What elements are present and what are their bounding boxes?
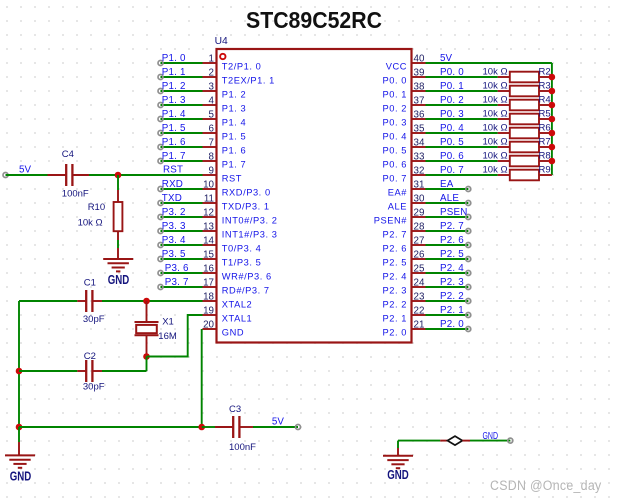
wire C2 row left bbox=[19, 370, 77, 372]
svg-text:T2/P1. 0: T2/P1. 0 bbox=[222, 61, 262, 71]
open end node P1. 1 bbox=[158, 75, 163, 80]
svg-text:T1/P3. 5: T1/P3. 5 bbox=[222, 257, 262, 267]
svg-text:P0. 0: P0. 0 bbox=[383, 75, 407, 85]
pin 12 stub bbox=[203, 216, 217, 218]
wire left vertical (C1/C2 bus) bbox=[18, 301, 20, 427]
svg-text:10k Ω: 10k Ω bbox=[78, 218, 103, 229]
svg-text:P0. 5: P0. 5 bbox=[383, 145, 407, 155]
svg-text:XTAL2: XTAL2 bbox=[222, 299, 252, 309]
pin 30 stub bbox=[412, 202, 426, 204]
open end node RXD bbox=[158, 187, 163, 192]
svg-text:EA: EA bbox=[440, 179, 454, 190]
node 5V (left) bbox=[3, 173, 8, 178]
capacitor C4 bbox=[48, 174, 67, 176]
open end node P2. 4 bbox=[466, 271, 471, 276]
wire 5V to C4 bbox=[6, 174, 48, 176]
svg-text:16M: 16M bbox=[158, 331, 177, 342]
svg-text:35: 35 bbox=[414, 123, 425, 134]
pin 15 stub bbox=[203, 258, 217, 260]
svg-text:100nF: 100nF bbox=[229, 442, 256, 453]
wire C2 to crystal bottom bbox=[102, 370, 147, 372]
svg-text:RST: RST bbox=[222, 173, 242, 183]
wire net P2. 4 bbox=[426, 272, 469, 274]
wire net P1. 6 bbox=[161, 146, 203, 148]
svg-text:P1. 2: P1. 2 bbox=[162, 81, 186, 92]
wire net P2. 2 bbox=[426, 300, 469, 302]
svg-text:21: 21 bbox=[414, 319, 425, 330]
svg-text:1: 1 bbox=[209, 53, 214, 64]
pin 31 stub bbox=[412, 188, 426, 190]
wire net P3. 7 bbox=[161, 286, 203, 288]
svg-text:13: 13 bbox=[203, 221, 214, 232]
wire 5V rail from pin 40 bbox=[426, 62, 552, 64]
junction pin20/bottom rail bbox=[198, 424, 205, 431]
svg-text:P1. 2: P1. 2 bbox=[222, 89, 246, 99]
svg-text:20: 20 bbox=[203, 319, 214, 330]
ground symbol (bottom right) bbox=[397, 441, 399, 448]
open end node P3. 4 bbox=[158, 243, 163, 248]
wire C3 to 5V bbox=[253, 426, 298, 428]
svg-text:P2. 6: P2. 6 bbox=[383, 243, 407, 253]
wire junction down to R10 bbox=[117, 175, 119, 190]
svg-text:27: 27 bbox=[414, 235, 425, 246]
wire net P1. 0 bbox=[161, 62, 203, 64]
pin 39 stub bbox=[412, 76, 426, 78]
pin 4 stub bbox=[203, 104, 217, 106]
svg-text:10k Ω: 10k Ω bbox=[483, 136, 508, 147]
svg-text:15: 15 bbox=[203, 249, 214, 260]
wire crystal to XTAL1 step bbox=[147, 315, 203, 357]
svg-text:6: 6 bbox=[209, 123, 215, 134]
open end node P2. 3 bbox=[466, 285, 471, 290]
svg-text:28: 28 bbox=[414, 221, 425, 232]
svg-text:P3. 4: P3. 4 bbox=[162, 235, 186, 246]
pin 6 stub bbox=[203, 132, 217, 134]
svg-text:INT1#/P3. 3: INT1#/P3. 3 bbox=[222, 229, 278, 239]
pin 1 stub bbox=[203, 62, 217, 64]
svg-text:P0. 5: P0. 5 bbox=[440, 137, 464, 148]
pin 29 stub bbox=[412, 216, 426, 218]
pin 8 stub bbox=[203, 160, 217, 162]
junction XTAL2/crystal top bbox=[143, 298, 150, 305]
wire net P1. 2 bbox=[161, 90, 203, 92]
svg-text:P3. 7: P3. 7 bbox=[165, 277, 189, 288]
resistor R7 bbox=[498, 146, 510, 148]
svg-text:P1. 3: P1. 3 bbox=[222, 103, 246, 113]
wire net P3. 5 bbox=[161, 258, 203, 260]
svg-text:22: 22 bbox=[414, 305, 425, 316]
open end node P1. 5 bbox=[158, 131, 163, 136]
wire net TXD bbox=[161, 202, 203, 204]
pin 34 stub bbox=[412, 146, 426, 148]
svg-text:P2. 4: P2. 4 bbox=[440, 263, 464, 274]
svg-text:PSEN: PSEN bbox=[440, 207, 467, 218]
svg-text:R2: R2 bbox=[539, 66, 551, 77]
svg-text:X1: X1 bbox=[162, 316, 174, 327]
pin 40 stub bbox=[412, 62, 426, 64]
wire net P0. 6 bbox=[426, 160, 498, 162]
wire net P0. 2 bbox=[426, 104, 498, 106]
svg-text:P2. 4: P2. 4 bbox=[383, 271, 407, 281]
ground symbol (bottom left) bbox=[18, 427, 20, 442]
resistor R5 bbox=[498, 118, 510, 120]
pin 13 stub bbox=[203, 230, 217, 232]
pin 3 stub bbox=[203, 90, 217, 92]
svg-text:40: 40 bbox=[414, 53, 425, 64]
svg-text:10: 10 bbox=[203, 179, 214, 190]
svg-text:U4: U4 bbox=[215, 36, 228, 47]
svg-text:10k Ω: 10k Ω bbox=[483, 164, 508, 175]
svg-text:C2: C2 bbox=[84, 351, 96, 362]
svg-text:P1. 6: P1. 6 bbox=[222, 145, 246, 155]
svg-text:P1. 5: P1. 5 bbox=[162, 123, 186, 134]
svg-text:P2. 3: P2. 3 bbox=[440, 277, 464, 288]
svg-text:P0. 1: P0. 1 bbox=[383, 89, 407, 99]
svg-text:R9: R9 bbox=[539, 164, 551, 175]
wire net P2. 6 bbox=[426, 244, 469, 246]
open end node P2. 6 bbox=[466, 243, 471, 248]
svg-text:P1. 4: P1. 4 bbox=[222, 117, 246, 127]
pin 22 stub bbox=[412, 314, 426, 316]
wire net RXD bbox=[161, 188, 203, 190]
svg-text:39: 39 bbox=[414, 67, 425, 78]
svg-text:P2. 7: P2. 7 bbox=[383, 229, 407, 239]
junction crystal bottom bbox=[143, 353, 150, 360]
wire C4 to RST pin bbox=[89, 174, 203, 176]
wire GND pin 20 down bbox=[201, 329, 203, 427]
svg-text:T2EX/P1. 1: T2EX/P1. 1 bbox=[222, 75, 275, 85]
svg-text:10k Ω: 10k Ω bbox=[483, 94, 508, 105]
svg-text:5: 5 bbox=[209, 109, 215, 120]
wire net P3. 4 bbox=[161, 244, 203, 246]
pin 26 stub bbox=[412, 258, 426, 260]
svg-text:C4: C4 bbox=[62, 149, 74, 160]
wire net EA bbox=[426, 188, 469, 190]
capacitor C3 bbox=[215, 426, 233, 428]
junction RST/R10 bbox=[115, 172, 122, 179]
open end node P1. 7 bbox=[158, 159, 163, 164]
open end node 5V (C3) bbox=[296, 425, 301, 430]
svg-text:GND: GND bbox=[483, 431, 499, 442]
svg-text:R5: R5 bbox=[539, 108, 551, 119]
wire GND to diamond bbox=[398, 440, 440, 442]
svg-text:32: 32 bbox=[414, 165, 425, 176]
svg-text:P1. 1: P1. 1 bbox=[162, 67, 186, 78]
wire net P0. 3 bbox=[426, 118, 498, 120]
svg-text:P2. 0: P2. 0 bbox=[440, 319, 464, 330]
resistor R9 bbox=[498, 174, 510, 176]
svg-text:8: 8 bbox=[209, 151, 215, 162]
open end node P1. 6 bbox=[158, 145, 163, 150]
open end node P1. 2 bbox=[158, 89, 163, 94]
pin 19 stub bbox=[203, 314, 217, 316]
wire net P0. 0 bbox=[426, 76, 498, 78]
svg-text:P0. 0: P0. 0 bbox=[440, 67, 464, 78]
svg-text:P2. 0: P2. 0 bbox=[383, 327, 407, 337]
crystal X1 bbox=[146, 301, 148, 322]
svg-text:12: 12 bbox=[203, 207, 214, 218]
svg-text:P1. 0: P1. 0 bbox=[162, 53, 186, 64]
svg-text:R6: R6 bbox=[539, 122, 551, 133]
svg-text:38: 38 bbox=[414, 81, 425, 92]
open end node ALE bbox=[466, 201, 471, 206]
svg-text:R10: R10 bbox=[88, 202, 105, 213]
svg-text:P0. 2: P0. 2 bbox=[383, 103, 407, 113]
svg-text:PSEN#: PSEN# bbox=[374, 215, 408, 225]
svg-text:10k Ω: 10k Ω bbox=[483, 80, 508, 91]
svg-text:C3: C3 bbox=[229, 404, 241, 415]
wire net P3. 3 bbox=[161, 230, 203, 232]
svg-text:5V: 5V bbox=[19, 165, 31, 176]
resistor R3 bbox=[498, 90, 510, 92]
svg-text:19: 19 bbox=[203, 305, 214, 316]
wire net P1. 5 bbox=[161, 132, 203, 134]
open end node P2. 7 bbox=[466, 229, 471, 234]
resistor R8 bbox=[498, 160, 510, 162]
svg-text:30: 30 bbox=[414, 193, 425, 204]
svg-text:10k Ω: 10k Ω bbox=[483, 150, 508, 161]
svg-text:P0. 7: P0. 7 bbox=[440, 165, 464, 176]
wire net P0. 1 bbox=[426, 90, 498, 92]
svg-text:P2. 2: P2. 2 bbox=[383, 299, 407, 309]
open end node PSEN bbox=[466, 215, 471, 220]
wire diamond to GND label bbox=[470, 440, 510, 442]
svg-text:10k Ω: 10k Ω bbox=[483, 122, 508, 133]
junction R5/5V rail bbox=[549, 116, 556, 123]
pin 32 stub bbox=[412, 174, 426, 176]
svg-text:3: 3 bbox=[209, 81, 215, 92]
svg-text:9: 9 bbox=[209, 165, 214, 176]
wire net P2. 7 bbox=[426, 230, 469, 232]
svg-text:GND: GND bbox=[108, 272, 130, 287]
open end node GND bbox=[508, 438, 513, 443]
svg-text:10k Ω: 10k Ω bbox=[483, 66, 508, 77]
pin 20 stub bbox=[203, 328, 217, 330]
open end node P3. 2 bbox=[158, 215, 163, 220]
svg-text:T0/P3. 4: T0/P3. 4 bbox=[222, 243, 262, 253]
svg-text:23: 23 bbox=[414, 291, 425, 302]
svg-text:VCC: VCC bbox=[386, 61, 407, 71]
wire C1 to XTAL2 pin bbox=[102, 300, 203, 302]
pin 37 stub bbox=[412, 104, 426, 106]
pin 5 stub bbox=[203, 118, 217, 120]
svg-text:P0. 3: P0. 3 bbox=[440, 109, 464, 120]
junction R4/5V rail bbox=[549, 102, 556, 109]
svg-text:17: 17 bbox=[203, 277, 214, 288]
junction R3/5V rail bbox=[549, 88, 556, 95]
svg-text:7: 7 bbox=[209, 137, 214, 148]
svg-text:34: 34 bbox=[414, 137, 425, 148]
resistor R10 bbox=[117, 190, 119, 202]
svg-text:P2. 1: P2. 1 bbox=[383, 313, 407, 323]
svg-text:P2. 3: P2. 3 bbox=[383, 285, 407, 295]
svg-text:P1. 5: P1. 5 bbox=[222, 131, 246, 141]
pin 36 stub bbox=[412, 118, 426, 120]
svg-text:TXD: TXD bbox=[162, 193, 182, 204]
svg-text:P3. 6: P3. 6 bbox=[165, 263, 189, 274]
svg-text:GND: GND bbox=[387, 467, 409, 482]
svg-text:P2. 5: P2. 5 bbox=[440, 249, 464, 260]
svg-text:P2. 2: P2. 2 bbox=[440, 291, 464, 302]
off-sheet diamond connector bbox=[440, 440, 447, 442]
open end node P1. 3 bbox=[158, 103, 163, 108]
pin 23 stub bbox=[412, 300, 426, 302]
wire 5V vertical rail bbox=[551, 63, 553, 175]
ground symbol (R10) bbox=[117, 248, 119, 259]
svg-text:P1. 7: P1. 7 bbox=[222, 159, 246, 169]
svg-text:P3. 2: P3. 2 bbox=[162, 207, 186, 218]
wire net P2. 1 bbox=[426, 314, 469, 316]
pin 17 stub bbox=[203, 286, 217, 288]
svg-text:INT0#/P3. 2: INT0#/P3. 2 bbox=[222, 215, 278, 225]
wire net P0. 4 bbox=[426, 132, 498, 134]
junction R8/5V rail bbox=[549, 158, 556, 165]
svg-text:11: 11 bbox=[204, 193, 214, 204]
svg-text:RXD: RXD bbox=[162, 179, 183, 190]
svg-text:R3: R3 bbox=[539, 80, 551, 91]
svg-text:P0. 1: P0. 1 bbox=[440, 81, 464, 92]
svg-text:24: 24 bbox=[414, 277, 425, 288]
svg-text:37: 37 bbox=[414, 95, 425, 106]
svg-text:ALE: ALE bbox=[440, 193, 459, 204]
svg-text:33: 33 bbox=[414, 151, 425, 162]
pin 2 stub bbox=[203, 76, 217, 78]
pin 10 stub bbox=[203, 188, 217, 190]
open end node P2. 5 bbox=[466, 257, 471, 262]
svg-text:P0. 6: P0. 6 bbox=[440, 151, 464, 162]
open end node P2. 0 bbox=[466, 327, 471, 332]
svg-text:P2. 6: P2. 6 bbox=[440, 235, 464, 246]
pin 18 stub bbox=[203, 300, 217, 302]
op-amp U4 body (IC STC89C52RC) bbox=[217, 49, 412, 343]
wire net P3. 6 bbox=[161, 272, 203, 274]
svg-text:P2. 1: P2. 1 bbox=[440, 305, 464, 316]
junction R2/5V rail bbox=[549, 74, 556, 81]
wire C1 row left bbox=[19, 300, 77, 302]
svg-text:P0. 3: P0. 3 bbox=[383, 117, 407, 127]
wire net P1. 7 bbox=[161, 160, 203, 162]
pin 11 stub bbox=[203, 202, 217, 204]
svg-text:5V: 5V bbox=[272, 417, 284, 428]
wire net P0. 7 bbox=[426, 174, 498, 176]
svg-text:26: 26 bbox=[414, 249, 425, 260]
pin 9 stub bbox=[203, 174, 217, 176]
pin 1 indicator circle bbox=[220, 54, 225, 59]
svg-text:TXD/P3. 1: TXD/P3. 1 bbox=[222, 201, 270, 211]
svg-text:4: 4 bbox=[209, 95, 215, 106]
open end node P3. 5 bbox=[158, 257, 163, 262]
capacitor C1 bbox=[77, 300, 86, 302]
wire rail to C3 bbox=[202, 426, 215, 428]
svg-text:P0. 2: P0. 2 bbox=[440, 95, 464, 106]
svg-text:31: 31 bbox=[414, 179, 425, 190]
wire net P2. 3 bbox=[426, 286, 469, 288]
wire net P1. 1 bbox=[161, 76, 203, 78]
open end node P1. 0 bbox=[158, 61, 163, 66]
svg-text:30pF: 30pF bbox=[83, 381, 105, 392]
svg-text:WR#/P3. 6: WR#/P3. 6 bbox=[222, 271, 272, 281]
svg-text:P1. 3: P1. 3 bbox=[162, 95, 186, 106]
svg-text:RXD/P3. 0: RXD/P3. 0 bbox=[222, 187, 271, 197]
wire net P1. 3 bbox=[161, 104, 203, 106]
svg-text:STC89C52RC: STC89C52RC bbox=[246, 7, 382, 33]
svg-text:30pF: 30pF bbox=[83, 314, 105, 325]
svg-text:16: 16 bbox=[203, 263, 214, 274]
pin 38 stub bbox=[412, 90, 426, 92]
svg-text:14: 14 bbox=[203, 235, 214, 246]
svg-text:36: 36 bbox=[414, 109, 425, 120]
open end node P2. 2 bbox=[466, 299, 471, 304]
svg-text:R4: R4 bbox=[539, 94, 551, 105]
open end node P3. 3 bbox=[158, 229, 163, 234]
svg-text:P2. 5: P2. 5 bbox=[383, 257, 407, 267]
pin 7 stub bbox=[203, 146, 217, 148]
pin 35 stub bbox=[412, 132, 426, 134]
svg-text:25: 25 bbox=[414, 263, 425, 274]
open end node EA bbox=[466, 187, 471, 192]
pin 25 stub bbox=[412, 272, 426, 274]
pin 16 stub bbox=[203, 272, 217, 274]
wire net P3. 2 bbox=[161, 216, 203, 218]
svg-text:P2. 7: P2. 7 bbox=[440, 221, 464, 232]
svg-text:100nF: 100nF bbox=[62, 189, 89, 200]
wire R10 to ground bbox=[117, 240, 119, 248]
svg-text:10k Ω: 10k Ω bbox=[483, 108, 508, 119]
svg-text:EA#: EA# bbox=[388, 187, 408, 197]
open end node P2. 1 bbox=[466, 313, 471, 318]
svg-text:CSDN @Once_day: CSDN @Once_day bbox=[490, 478, 602, 493]
svg-text:P1. 7: P1. 7 bbox=[162, 151, 186, 162]
wire net P1. 4 bbox=[161, 118, 203, 120]
resistor R2 bbox=[498, 76, 510, 78]
wire net PSEN bbox=[426, 216, 469, 218]
svg-text:18: 18 bbox=[203, 291, 214, 302]
svg-text:GND: GND bbox=[10, 468, 32, 483]
pin 28 stub bbox=[412, 230, 426, 232]
open end node P3. 6 bbox=[158, 271, 163, 276]
svg-text:XTAL1: XTAL1 bbox=[222, 313, 252, 323]
wire net P2. 0 bbox=[426, 328, 469, 330]
svg-text:RD#/P3. 7: RD#/P3. 7 bbox=[222, 285, 270, 295]
junction C2/left bus bbox=[16, 368, 23, 375]
svg-text:GND: GND bbox=[222, 327, 244, 337]
junction R6/5V rail bbox=[549, 130, 556, 137]
svg-text:C1: C1 bbox=[84, 277, 96, 288]
open end node P3. 7 bbox=[158, 285, 163, 290]
svg-text:29: 29 bbox=[414, 207, 425, 218]
junction R7/5V rail bbox=[549, 144, 556, 151]
svg-text:P0. 7: P0. 7 bbox=[383, 173, 407, 183]
svg-text:R7: R7 bbox=[539, 136, 551, 147]
svg-text:ALE: ALE bbox=[388, 201, 407, 211]
svg-text:5V: 5V bbox=[440, 53, 452, 64]
wire bottom rail bbox=[19, 426, 202, 428]
wire net ALE bbox=[426, 202, 469, 204]
svg-text:P1. 6: P1. 6 bbox=[162, 137, 186, 148]
pin 27 stub bbox=[412, 244, 426, 246]
open end node TXD bbox=[158, 201, 163, 206]
svg-text:R8: R8 bbox=[539, 150, 551, 161]
wire net P0. 5 bbox=[426, 146, 498, 148]
pin 21 stub bbox=[412, 328, 426, 330]
svg-text:2: 2 bbox=[209, 67, 214, 78]
open end node P1. 4 bbox=[158, 117, 163, 122]
svg-text:P0. 4: P0. 4 bbox=[383, 131, 407, 141]
resistor R4 bbox=[498, 104, 510, 106]
svg-text:P0. 6: P0. 6 bbox=[383, 159, 407, 169]
svg-text:RST: RST bbox=[163, 165, 183, 176]
pin 24 stub bbox=[412, 286, 426, 288]
